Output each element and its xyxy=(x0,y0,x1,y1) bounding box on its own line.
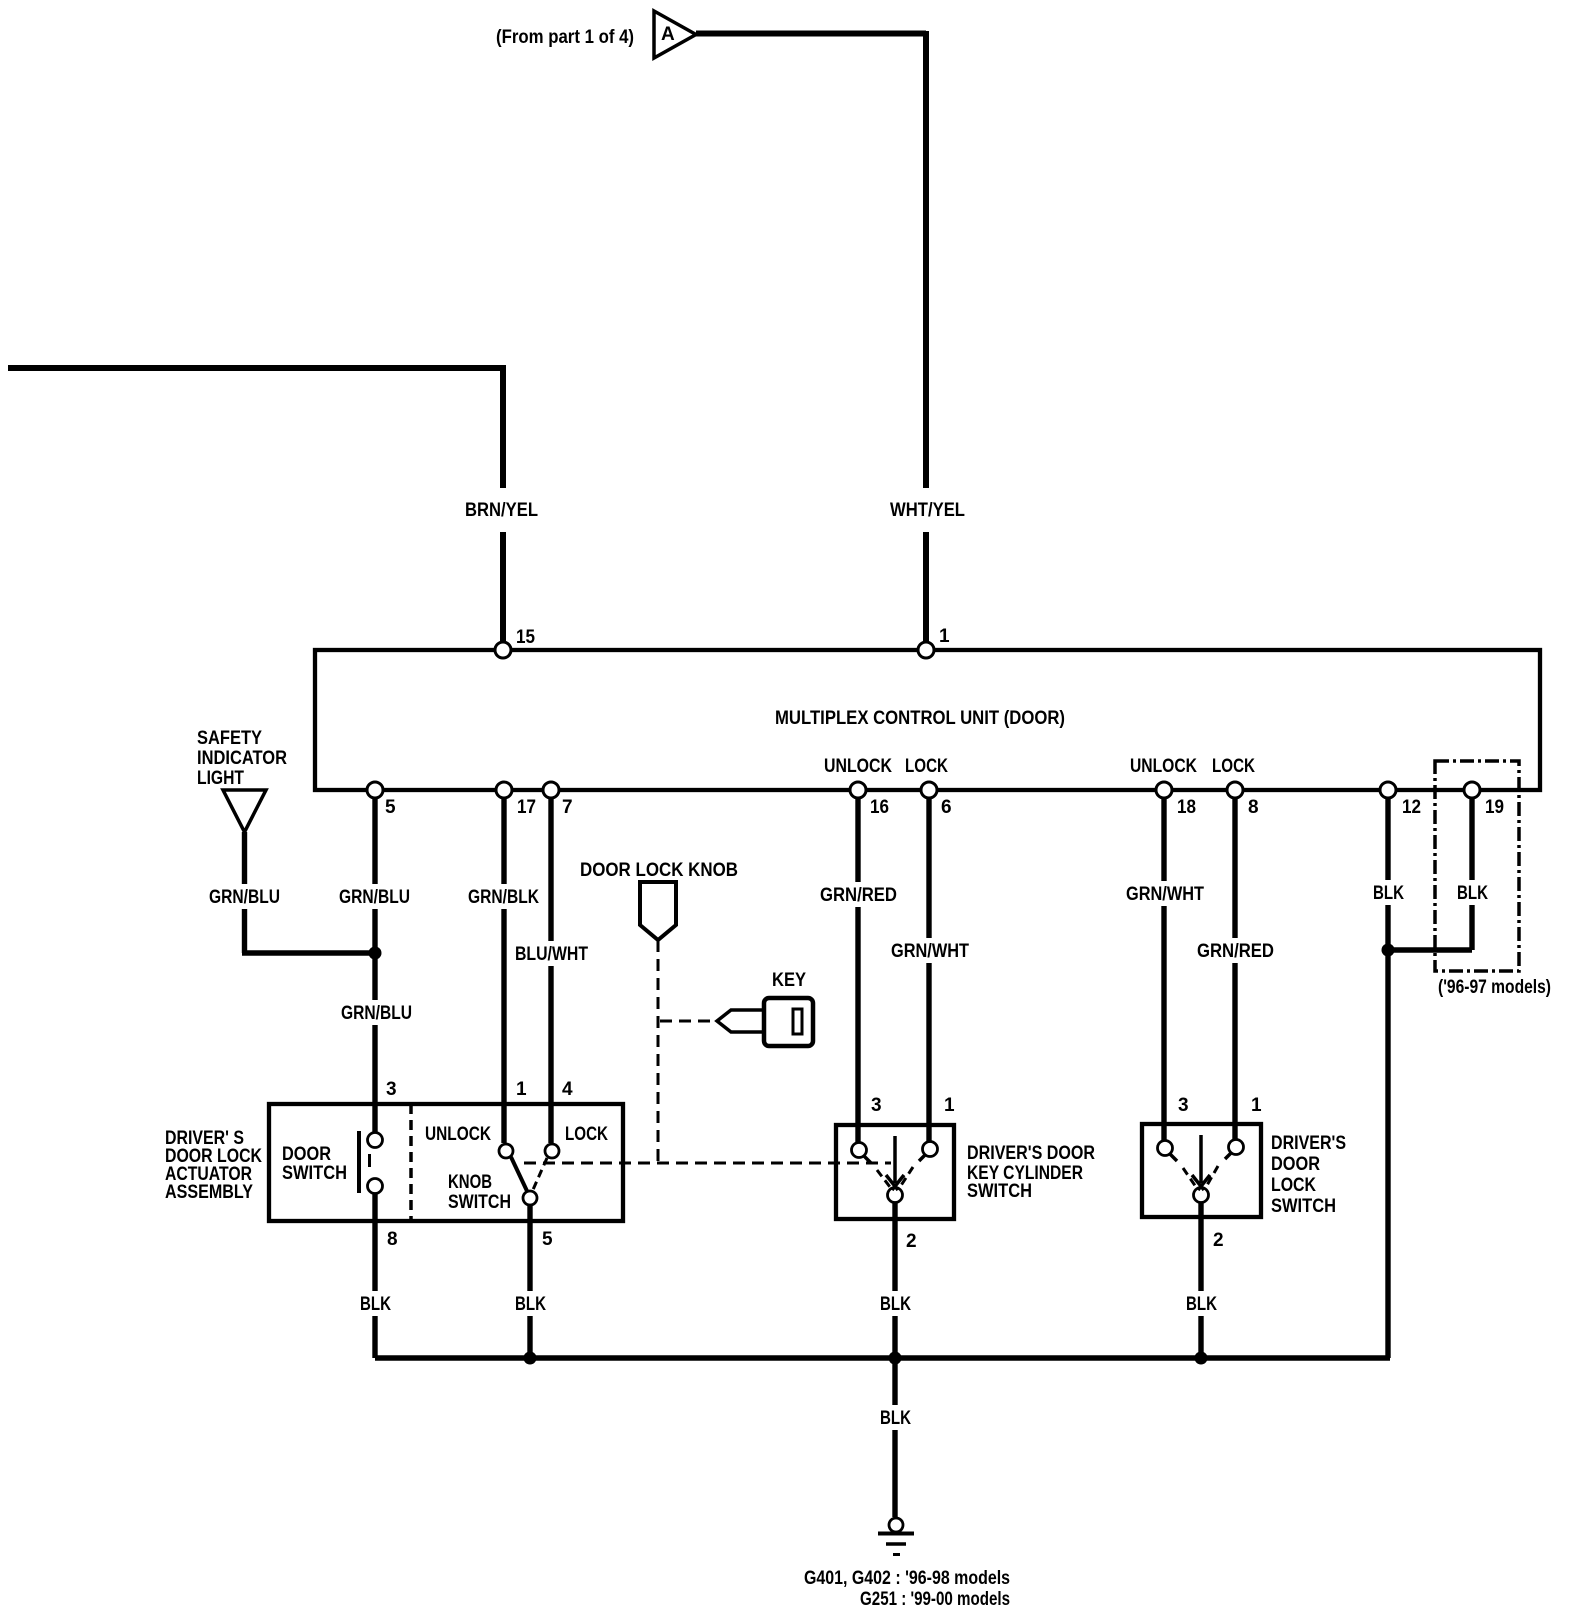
svg-text:LOCK: LOCK xyxy=(1212,756,1255,777)
wire from left edge to pin 15 xyxy=(8,365,503,641)
svg-text:GRN/BLU: GRN/BLU xyxy=(209,887,280,908)
door lock switch contacts xyxy=(1158,1141,1173,1156)
svg-text:LOCK: LOCK xyxy=(905,756,948,777)
dash-dot box ('96-97 models) around pin 19 xyxy=(1435,761,1519,971)
svg-text:BLK: BLK xyxy=(360,1294,391,1315)
svg-text:1: 1 xyxy=(516,1079,527,1100)
wire from connector A to pin 1 xyxy=(696,31,926,641)
value label GRN/RED xyxy=(1196,938,1274,963)
wire pin 18 to door lock switch xyxy=(1161,798,1166,1140)
driver's door key cylinder switch box xyxy=(836,1125,954,1219)
wire key cylinder to ground xyxy=(892,1203,897,1358)
svg-text:INDICATOR: INDICATOR xyxy=(197,748,287,769)
value label BLK (pin 19 wire) xyxy=(1455,880,1490,905)
svg-text:SWITCH: SWITCH xyxy=(282,1163,347,1184)
svg-text:7: 7 xyxy=(562,797,573,818)
value label BLK xyxy=(358,1291,393,1316)
svg-text:DOOR LOCK KNOB: DOOR LOCK KNOB xyxy=(580,860,738,881)
svg-text:4: 4 xyxy=(562,1079,573,1100)
pin 8 xyxy=(1227,782,1259,818)
driver's door lock switch box xyxy=(1142,1124,1261,1217)
svg-text:6: 6 xyxy=(941,797,952,818)
svg-text:1: 1 xyxy=(1251,1095,1262,1116)
wire knob switch to ground bus xyxy=(527,1205,532,1358)
svg-text:GRN/RED: GRN/RED xyxy=(1197,941,1274,962)
svg-text:BLK: BLK xyxy=(515,1294,546,1315)
dashed link key to knob line xyxy=(660,1020,712,1023)
svg-text:UNLOCK: UNLOCK xyxy=(824,756,892,777)
pin 15 xyxy=(495,627,535,658)
value label WHT/YEL xyxy=(886,488,970,532)
key cylinder center arrow xyxy=(886,1136,904,1190)
value label BLK (ground wire) xyxy=(878,1405,913,1430)
value label BLK xyxy=(513,1291,548,1316)
wire bus to ground G401 xyxy=(892,1358,897,1517)
key cylinder lever tails xyxy=(864,1155,925,1163)
svg-text:A: A xyxy=(661,24,675,45)
svg-text:2: 2 xyxy=(1213,1230,1224,1251)
value label GRN/BLK xyxy=(467,884,541,909)
svg-text:UNLOCK: UNLOCK xyxy=(1130,756,1197,777)
svg-text:WHT/YEL: WHT/YEL xyxy=(890,500,965,521)
pin 5 xyxy=(367,782,396,818)
value label BLU/WHT xyxy=(514,941,588,966)
dashed mechanical link from knob down xyxy=(657,940,660,1163)
svg-text:GRN/WHT: GRN/WHT xyxy=(891,941,969,962)
svg-text:DOOR: DOOR xyxy=(1271,1154,1320,1175)
svg-text:ASSEMBLY: ASSEMBLY xyxy=(165,1182,253,1203)
pin 16 xyxy=(850,782,889,818)
value label GRN/BLU (pin 5 wire) xyxy=(338,884,412,909)
svg-text:MULTIPLEX CONTROL UNIT (DOOR): MULTIPLEX CONTROL UNIT (DOOR) xyxy=(775,708,1065,729)
svg-text:LOCK: LOCK xyxy=(565,1124,608,1145)
svg-text:5: 5 xyxy=(542,1229,553,1250)
wire pin 19 to pin 12 wire xyxy=(1388,798,1472,950)
svg-text:BLK: BLK xyxy=(1457,883,1488,904)
svg-text:8: 8 xyxy=(387,1229,398,1250)
svg-text:16: 16 xyxy=(870,797,889,818)
value label BRN/YEL xyxy=(464,488,540,532)
svg-text:DRIVER'S DOOR: DRIVER'S DOOR xyxy=(967,1143,1095,1164)
svg-text:19: 19 xyxy=(1485,797,1504,818)
pin 12 xyxy=(1380,782,1421,818)
svg-text:BLK: BLK xyxy=(1373,883,1404,904)
wire door switch to ground bus xyxy=(372,1194,377,1358)
dashed mechanical linkage knob switch to key cylinder xyxy=(524,1162,891,1165)
svg-text:GRN/WHT: GRN/WHT xyxy=(1126,884,1204,905)
junction dot at safety light tap xyxy=(369,947,382,960)
ground bus wire xyxy=(375,1355,1390,1360)
svg-text:('96-97 models): ('96-97 models) xyxy=(1438,977,1551,998)
svg-text:DOOR: DOOR xyxy=(282,1144,331,1165)
svg-text:2: 2 xyxy=(906,1231,917,1252)
svg-text:GRN/BLK: GRN/BLK xyxy=(468,887,539,908)
svg-text:BLK: BLK xyxy=(1186,1294,1217,1315)
svg-text:BLU/WHT: BLU/WHT xyxy=(515,944,588,965)
door switch symbol xyxy=(359,1131,383,1194)
value label BLK (pin 12 wire) xyxy=(1371,880,1406,905)
svg-text:G251 : '99-00 models: G251 : '99-00 models xyxy=(860,1589,1010,1610)
pin 18 xyxy=(1156,782,1196,818)
svg-text:BLK: BLK xyxy=(880,1408,911,1429)
svg-text:18: 18 xyxy=(1177,797,1196,818)
door lock switch lever tails xyxy=(1170,1153,1231,1161)
door lock switch center arrow xyxy=(1192,1135,1210,1190)
multiplex control unit box U1 xyxy=(315,650,1540,790)
svg-text:DRIVER'S: DRIVER'S xyxy=(1271,1133,1346,1154)
pin 17 xyxy=(496,782,536,818)
connector A triangle (from part 1 of 4) xyxy=(654,11,696,58)
dashed divider inside actuator box xyxy=(409,1104,413,1221)
svg-text:5: 5 xyxy=(385,797,396,818)
svg-text:KNOB: KNOB xyxy=(448,1172,492,1193)
value label GRN/BLU (safety light wire) xyxy=(208,884,282,909)
svg-text:1: 1 xyxy=(939,626,950,647)
junction dot pin19/pin12 wires xyxy=(1382,944,1395,957)
wire pin 17 to knob switch unlock xyxy=(501,798,506,1143)
svg-text:SAFETY: SAFETY xyxy=(197,728,262,749)
value label GRN/WHT xyxy=(890,938,969,963)
svg-text:3: 3 xyxy=(386,1079,397,1100)
wire door lock switch to ground bus xyxy=(1198,1203,1203,1358)
svg-text:BRN/YEL: BRN/YEL xyxy=(465,500,538,521)
wire pin 6 to key cylinder switch xyxy=(926,798,931,1141)
pin 1 xyxy=(918,626,950,658)
key symbol xyxy=(717,998,813,1046)
value label GRN/RED xyxy=(819,882,897,907)
junction dot knob switch / bus xyxy=(524,1352,537,1365)
value label GRN/BLU (below junction) xyxy=(340,1000,414,1025)
svg-text:LIGHT: LIGHT xyxy=(197,768,244,789)
key cylinder switch contacts xyxy=(852,1143,867,1158)
wire from safety light to junction xyxy=(242,832,375,953)
door lock knob symbol xyxy=(640,882,676,940)
key cylinder dashed levers xyxy=(877,1167,913,1187)
svg-text:3: 3 xyxy=(1178,1095,1189,1116)
wire pin 8 to door lock switch xyxy=(1232,798,1237,1139)
svg-text:1: 1 xyxy=(944,1095,955,1116)
svg-text:SWITCH: SWITCH xyxy=(448,1192,511,1213)
wire pin 12 down to ground bus xyxy=(1385,798,1390,1358)
knob switch dashed alternate position xyxy=(532,1158,547,1192)
svg-text:17: 17 xyxy=(517,797,536,818)
svg-text:3: 3 xyxy=(871,1095,882,1116)
svg-text:BLK: BLK xyxy=(880,1294,911,1315)
ground symbol G401/G402/G251 xyxy=(878,1518,914,1555)
svg-text:GRN/BLU: GRN/BLU xyxy=(341,1003,412,1024)
value label BLK xyxy=(878,1291,913,1316)
pin 7 xyxy=(543,782,573,818)
value label BLK xyxy=(1184,1291,1219,1316)
svg-text:12: 12 xyxy=(1402,797,1421,818)
door lock switch dashed levers xyxy=(1183,1166,1218,1187)
svg-text:UNLOCK: UNLOCK xyxy=(425,1124,491,1145)
svg-text:15: 15 xyxy=(516,627,535,648)
wire pin 16 to key cylinder switch xyxy=(855,798,860,1142)
svg-text:LOCK: LOCK xyxy=(1271,1175,1316,1196)
pin 19 xyxy=(1464,782,1504,818)
svg-text:GRN/BLU: GRN/BLU xyxy=(339,887,410,908)
svg-text:SWITCH: SWITCH xyxy=(1271,1196,1336,1217)
knob switch contacts xyxy=(499,1144,513,1158)
safety indicator light symbol xyxy=(223,790,266,832)
wire pin 5 to door switch xyxy=(372,798,377,1132)
svg-text:G401, G402 : '96-98 models: G401, G402 : '96-98 models xyxy=(804,1568,1010,1589)
svg-text:GRN/RED: GRN/RED xyxy=(820,885,897,906)
junction dot door lock switch / bus xyxy=(1195,1352,1208,1365)
pin 6 xyxy=(921,782,952,818)
junction dot key cylinder / bus xyxy=(889,1352,902,1365)
driver's door lock actuator assembly box xyxy=(269,1104,623,1221)
wire pin 7 to knob switch lock xyxy=(548,798,553,1143)
svg-text:KEY: KEY xyxy=(772,970,806,991)
value label GRN/WHT xyxy=(1125,881,1204,906)
svg-text:SWITCH: SWITCH xyxy=(967,1181,1032,1202)
svg-text:8: 8 xyxy=(1248,797,1259,818)
knob switch lever xyxy=(511,1157,527,1191)
svg-text:(From part 1 of 4): (From part 1 of 4) xyxy=(496,27,634,48)
